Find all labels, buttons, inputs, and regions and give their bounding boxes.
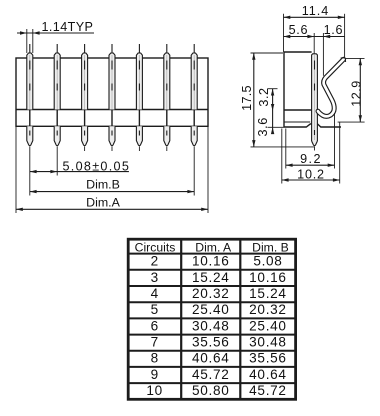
svg-text:1.14TYP: 1.14TYP (42, 20, 94, 34)
pin side view centre dashes (314, 55, 316, 140)
svg-text:3: 3 (151, 270, 159, 285)
side view housing top edge (284, 51, 312, 53)
svg-text:25.40: 25.40 (249, 318, 287, 333)
front view housing body (16, 58, 208, 126)
dim Dim.A line (16, 208, 208, 210)
svg-text:1.6: 1.6 (324, 23, 344, 37)
pin 6 front view (164, 44, 170, 151)
pin side view taper and tail (312, 141, 318, 146)
svg-text:45.72: 45.72 (192, 367, 230, 382)
svg-text:10.16: 10.16 (249, 270, 287, 285)
svg-text:2: 2 (151, 254, 159, 269)
dim 12.9 line (359, 58, 361, 122)
dim 11.4 extension lines (283, 14, 285, 52)
pin 3 front view (82, 44, 88, 151)
dim 9.2 extension lines (285, 129, 287, 169)
contact spring (bent metal clip) (318, 59, 344, 116)
contact spring tip facets (341, 57, 346, 59)
side view housing left edge (283, 52, 285, 127)
svg-text:12.9: 12.9 (349, 80, 363, 107)
table outer border (128, 239, 295, 399)
dim 3.2/3.6 line (272, 89, 274, 133)
svg-text:30.48: 30.48 (249, 335, 287, 350)
svg-text:35.56: 35.56 (249, 351, 287, 366)
svg-text:Dim. A: Dim. A (195, 241, 232, 255)
dim 3.6 bottom extension (268, 126, 285, 128)
pin 7 front view (191, 44, 197, 196)
svg-text:45.72: 45.72 (249, 383, 287, 398)
dim Dim.A extension lines (15, 126, 17, 213)
dim 5.6/1.6 extension lines (313, 33, 315, 54)
svg-text:20.32: 20.32 (249, 302, 287, 317)
svg-text:6: 6 (151, 318, 159, 333)
svg-text:7: 7 (151, 335, 159, 350)
dim 5.6/1.6 line (284, 36, 345, 38)
svg-text:15.24: 15.24 (192, 270, 230, 285)
dim 17.5 extension lines (251, 52, 284, 54)
svg-text:Circuits: Circuits (135, 241, 176, 255)
svg-text:25.40: 25.40 (192, 302, 230, 317)
pin 5 front view (136, 44, 142, 151)
svg-text:10.16: 10.16 (192, 254, 230, 269)
svg-text:35.56: 35.56 (192, 335, 230, 350)
svg-text:3.2: 3.2 (257, 87, 271, 106)
side view inner shelf line (284, 121, 310, 123)
dim 10.2 extension lines (281, 129, 283, 184)
svg-text:30.48: 30.48 (192, 318, 230, 333)
dim 3.2 top tick (268, 88, 278, 90)
svg-text:5: 5 (151, 302, 159, 317)
dim 10.2 line (282, 179, 340, 181)
dim 1.14TYP extension lines (26, 29, 28, 53)
svg-text:Dim.B: Dim.B (86, 178, 120, 192)
svg-text:15.24: 15.24 (249, 286, 287, 301)
svg-text:17.5: 17.5 (240, 85, 254, 111)
svg-text:11.4: 11.4 (302, 4, 330, 18)
side view housing band line (284, 109, 312, 111)
svg-text:Dim.A: Dim.A (86, 195, 120, 209)
pin side view body (312, 54, 318, 141)
front view housing band line (16, 109, 208, 111)
side view housing bottom with boss (284, 124, 341, 127)
dim 11.4 line (284, 16, 345, 18)
svg-text:20.32: 20.32 (192, 286, 230, 301)
dim Dim.B line (30, 191, 194, 193)
svg-text:3.6: 3.6 (256, 117, 270, 136)
dim 5.08 line (30, 171, 129, 173)
svg-text:Dim. B: Dim. B (252, 241, 289, 255)
svg-text:10: 10 (146, 383, 163, 398)
svg-text:5.6: 5.6 (289, 23, 309, 37)
table row separators (128, 253, 295, 255)
svg-text:10.2: 10.2 (297, 167, 325, 181)
dim 9.2 line (286, 164, 335, 166)
svg-text:9.2: 9.2 (300, 152, 322, 166)
svg-text:50.80: 50.80 (192, 383, 230, 398)
svg-text:40.64: 40.64 (249, 367, 287, 382)
table column separators (180, 239, 182, 399)
svg-text:5.08: 5.08 (253, 254, 282, 269)
svg-text:9: 9 (151, 367, 159, 382)
svg-text:5.08±0.05: 5.08±0.05 (63, 159, 131, 173)
svg-text:40.64: 40.64 (192, 351, 230, 366)
pin 2 front view (54, 44, 60, 176)
pin 1 front view (27, 44, 33, 196)
dim 12.9 extension lines (346, 57, 365, 59)
svg-text:8: 8 (151, 351, 159, 366)
dim 17.5 line (253, 53, 255, 147)
dim 1.14TYP line and arrows (17, 32, 94, 34)
svg-text:4: 4 (151, 286, 159, 301)
pin 4 front view (109, 44, 115, 151)
